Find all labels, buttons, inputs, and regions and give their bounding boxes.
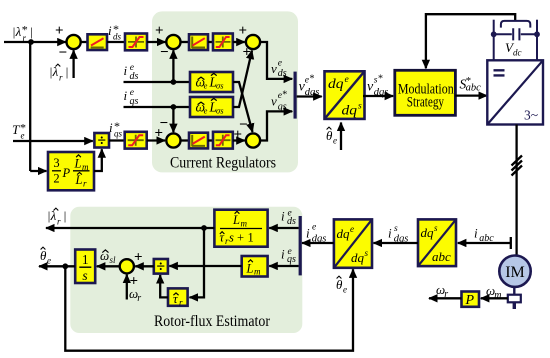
- svg-text:qs: qs: [287, 254, 296, 265]
- svg-text:sl: sl: [110, 255, 117, 265]
- flux filter block Lm/(tr s+1): [214, 210, 267, 247]
- svg-text:dq: dq: [421, 225, 435, 240]
- svg-text:L: L: [232, 213, 240, 227]
- encoder block: [508, 287, 521, 310]
- Lm gain block: [242, 256, 268, 277]
- svg-text:|λ: |λ: [49, 64, 59, 79]
- svg-text:−: −: [160, 45, 169, 61]
- svg-text:i: i: [474, 226, 478, 241]
- summing junction S5: [246, 133, 260, 147]
- svg-text:−: −: [59, 45, 68, 61]
- wire SAT2 to S3: [233, 41, 245, 43]
- node omega_r label (output): [436, 282, 448, 300]
- PI controller block P2: [189, 34, 208, 50]
- svg-text:dqs: dqs: [374, 87, 389, 98]
- svg-text:2: 2: [53, 172, 59, 186]
- wire flux output lambda_hat: [46, 225, 214, 231]
- svg-text:m: m: [494, 290, 501, 301]
- wire dc-link left rail: [493, 20, 495, 61]
- node V_dc label: [505, 40, 522, 58]
- svg-text:dq: dq: [328, 76, 344, 91]
- wire S6 to integrator: [97, 265, 120, 267]
- svg-text:1: 1: [82, 252, 89, 267]
- svg-text:*: *: [310, 74, 315, 85]
- wire S2 to PI2: [180, 41, 189, 43]
- node i_dqs^e label: [306, 223, 326, 245]
- mux bar voltages: [294, 72, 297, 119]
- svg-text:+: +: [134, 250, 143, 266]
- summing junction S1: [67, 35, 81, 49]
- node i_ds* label: [108, 22, 122, 42]
- svg-text:ds: ds: [130, 71, 139, 82]
- coupling block wL2: [190, 97, 233, 117]
- divide block DIV1: [94, 133, 109, 150]
- wire inverter output to motor: [515, 125, 517, 256]
- svg-text:θ: θ: [326, 128, 333, 143]
- svg-text:v: v: [271, 94, 277, 109]
- node S_abc* label: [460, 75, 482, 94]
- node T_e* label: [12, 121, 26, 141]
- svg-text:i: i: [281, 209, 285, 224]
- svg-text:3: 3: [53, 156, 59, 170]
- wire i_abc to ABC block: [458, 242, 511, 244]
- svg-text:L: L: [75, 173, 83, 187]
- wire tau_r to DIV2: [160, 275, 168, 297]
- svg-text:+: +: [155, 23, 164, 39]
- svg-text:÷: ÷: [157, 259, 166, 276]
- wire modulation to inverter: [455, 94, 487, 96]
- svg-text:e: e: [21, 131, 25, 141]
- wire i_qs^e to Lm block: [269, 265, 298, 267]
- svg-text:r: r: [137, 293, 141, 304]
- svg-text:abc: abc: [479, 233, 494, 244]
- svg-text:s: s: [434, 223, 438, 233]
- svg-text:+: +: [237, 231, 244, 245]
- wire Lm to DIV2: [169, 265, 241, 267]
- wire theta_e stub to DQ1: [340, 123, 342, 151]
- junction dot right rail: [534, 31, 540, 37]
- rotor-flux estimator background region: [70, 207, 302, 333]
- wire lambda_hat feedback stub: [72, 50, 74, 78]
- wire theta_e feedback bottom: [65, 266, 353, 350]
- node i_ds^e label: [124, 63, 139, 82]
- svg-text:r: r: [83, 179, 87, 189]
- svg-text:e: e: [204, 106, 208, 116]
- capacitor C plates: [513, 28, 519, 40]
- svg-text:−: −: [160, 116, 169, 132]
- wire lambda_r* branch down: [29, 42, 31, 171]
- PI controller block P3: [189, 133, 208, 149]
- wire T_e* input: [13, 140, 93, 142]
- Vdc measurement bracket: [501, 21, 530, 28]
- svg-text:abc: abc: [432, 249, 451, 264]
- summing junction S4: [166, 133, 180, 147]
- node omega_r label (estimator): [129, 286, 141, 304]
- svg-text:1: 1: [248, 231, 254, 245]
- svg-text:dqs: dqs: [394, 233, 409, 244]
- svg-text:+: +: [55, 23, 64, 39]
- wire T branch to torque block: [30, 170, 46, 172]
- wire S3 output v_ds to mux: [260, 42, 292, 79]
- svg-text:σs: σs: [216, 81, 224, 91]
- svg-text:dq: dq: [351, 250, 365, 265]
- transform block DQ2 (dq_e / dq_s): [334, 219, 372, 267]
- svg-text:i: i: [306, 226, 310, 241]
- wire torque block to DIV1: [94, 149, 102, 171]
- svg-text:*: *: [378, 74, 383, 85]
- wire DQ2 to demux: [302, 242, 334, 244]
- node v_dqs^e* label: [299, 74, 320, 98]
- saturation block SATq: [125, 132, 147, 149]
- svg-text:i: i: [108, 23, 112, 38]
- tau_r block: [168, 288, 188, 307]
- node i_qs* label: [109, 119, 123, 139]
- svg-text:e: e: [204, 81, 208, 91]
- svg-text:P: P: [62, 166, 71, 180]
- svg-text:P: P: [465, 293, 475, 308]
- coupling block wL1: [190, 72, 233, 92]
- wire i_ds^e stub into regulators: [124, 79, 192, 85]
- node i_abc label: [474, 226, 494, 245]
- svg-text:s: s: [358, 102, 362, 112]
- svg-text:e: e: [305, 76, 309, 86]
- saturation block SAT1: [125, 34, 147, 51]
- svg-text:dq: dq: [337, 226, 351, 241]
- svg-text:m: m: [241, 219, 248, 229]
- saturation block SAT3: [213, 132, 233, 149]
- node theta_e label (DQ2): [336, 276, 347, 294]
- wire DQ3 to DQ2: [374, 242, 419, 244]
- wire SAT3 to S5: [233, 139, 245, 141]
- node lambda_hat out label: [47, 208, 67, 227]
- pole-pairs block P: [462, 292, 480, 308]
- demux bar currents: [299, 216, 302, 275]
- svg-text:IM: IM: [505, 264, 525, 281]
- wire wL1 cross-coupling to S5: [233, 82, 253, 132]
- saturation block SAT2: [213, 34, 233, 51]
- svg-text:ds: ds: [287, 216, 296, 227]
- wire dc-link right rail: [536, 20, 538, 61]
- svg-text:|: |: [30, 24, 34, 39]
- wire i_ds^e to flux block: [269, 227, 298, 229]
- node v_qs^e* label: [271, 90, 287, 113]
- wire theta_e output: [39, 263, 75, 269]
- svg-text:|: |: [63, 208, 67, 223]
- svg-text:dq: dq: [342, 103, 358, 118]
- svg-text:ds: ds: [278, 68, 287, 79]
- svg-text:i: i: [281, 247, 285, 262]
- current regulators background region: [152, 11, 298, 172]
- svg-text:dqs: dqs: [312, 233, 327, 244]
- wire flux branch down to tau_r: [190, 228, 205, 297]
- node omega_sl label: [100, 248, 116, 265]
- node lambda* label: [12, 23, 33, 44]
- svg-text:θ: θ: [336, 277, 343, 292]
- torque gain block 3/2 P Lm/Lr: [48, 152, 94, 190]
- svg-text:T: T: [12, 122, 20, 137]
- wire i_qs^e stub into regulators: [124, 104, 192, 110]
- svg-text:|λ: |λ: [47, 208, 57, 223]
- node omega_m label: [486, 283, 502, 301]
- svg-text:*: *: [282, 90, 287, 101]
- svg-text:L: L: [246, 262, 254, 276]
- svg-text:+: +: [239, 23, 248, 39]
- svg-text:3~: 3~: [524, 108, 538, 123]
- node i_qs^e label: [124, 88, 139, 107]
- wire i_qs junction down to S4: [172, 107, 174, 132]
- svg-text:i: i: [124, 88, 128, 103]
- current sensor tick: [510, 237, 512, 249]
- svg-text:i: i: [124, 63, 128, 78]
- wire PI1 to SAT1: [107, 41, 125, 43]
- svg-text:÷: ÷: [97, 133, 106, 150]
- wire lambda_r* input: [4, 39, 66, 45]
- svg-text:r: r: [59, 73, 63, 83]
- svg-text:r: r: [23, 33, 27, 43]
- svg-text:|λ: |λ: [12, 24, 22, 39]
- wire S5 output v_qs to mux: [260, 111, 292, 140]
- svg-text:θ: θ: [40, 248, 47, 263]
- inverter block: [487, 60, 543, 124]
- svg-text:i: i: [109, 120, 113, 135]
- wire wL2 cross-coupling to S3: [233, 51, 252, 108]
- wire PI2 to SAT2: [208, 41, 213, 43]
- svg-text:Rotor-flux Estimator: Rotor-flux Estimator: [154, 313, 271, 330]
- svg-text:Current Regulators: Current Regulators: [170, 155, 276, 172]
- wire S4 to PIq: [180, 139, 189, 141]
- PI controller block P1: [88, 34, 108, 50]
- node i_qs^e label (estimator): [281, 247, 296, 266]
- svg-text:e: e: [312, 223, 316, 233]
- svg-text:e: e: [350, 224, 354, 234]
- node lambda_hat label: [49, 64, 69, 83]
- wire DQ1 to modulation: [363, 95, 393, 97]
- summing junction S6: [120, 259, 134, 273]
- svg-text:e: e: [333, 136, 337, 146]
- wire SATq to S4: [147, 139, 165, 141]
- node i_ds^e label (estimator): [281, 209, 296, 228]
- divide block DIV2: [154, 259, 168, 276]
- node theta_e label (DQ1): [326, 127, 337, 145]
- induction motor IM: [499, 256, 530, 287]
- svg-text:qs: qs: [114, 129, 123, 139]
- svg-text:r: r: [57, 217, 61, 227]
- wire omega_m to P: [481, 297, 508, 299]
- svg-text:qs: qs: [130, 96, 139, 107]
- svg-text:v: v: [271, 61, 277, 76]
- svg-text:s: s: [229, 231, 234, 245]
- wire DIV1 to SATq: [109, 139, 125, 141]
- capacitor C wires: [494, 33, 537, 35]
- svg-text:ds: ds: [113, 32, 122, 42]
- wire i_ds junction up to S2: [172, 50, 174, 82]
- svg-text:r: r: [444, 289, 448, 300]
- svg-text:e: e: [345, 75, 349, 85]
- transform block DQ1 (dq_e / dq_s): [325, 71, 365, 119]
- transform block DQ3 (dq_s / abc): [418, 219, 456, 266]
- wire omega_r output: [429, 297, 462, 299]
- svg-text:e: e: [278, 58, 282, 68]
- svg-text:dc: dc: [513, 48, 522, 58]
- svg-text:dqs: dqs: [305, 87, 320, 98]
- modulation strategy block: [395, 70, 456, 115]
- wire S1 to PI1: [80, 41, 87, 43]
- three-phase slash marks: [512, 156, 523, 176]
- svg-text:σs: σs: [216, 106, 224, 116]
- wire omega_r stub to S6: [126, 275, 128, 300]
- svg-text:abc: abc: [466, 83, 482, 94]
- node v_ds^e label: [271, 58, 287, 79]
- node i_dqs^s label: [388, 224, 408, 244]
- node v_dqs^s* label: [367, 74, 388, 98]
- integrator block 1/s: [75, 250, 95, 284]
- svg-text:s: s: [82, 268, 87, 283]
- wire PIq to SAT3: [208, 139, 213, 141]
- svg-text:i: i: [388, 226, 392, 241]
- svg-text:|: |: [65, 64, 69, 79]
- node theta_e out label: [40, 247, 51, 265]
- svg-text:qs: qs: [278, 102, 287, 113]
- svg-text:+: +: [234, 127, 243, 143]
- Vdc feedback wire to modulation: [426, 14, 515, 68]
- svg-text:e: e: [47, 256, 51, 266]
- svg-text:r: r: [179, 298, 183, 308]
- wire SAT1 to S2: [147, 41, 166, 43]
- svg-text:e: e: [343, 285, 347, 295]
- svg-text:m: m: [254, 267, 261, 277]
- wire v_dqs^e* to DQ1: [297, 95, 322, 97]
- junction dot left rail: [491, 31, 497, 37]
- summing junction S3: [246, 35, 260, 49]
- svg-text:Strategy: Strategy: [407, 95, 445, 111]
- svg-text:s: s: [365, 248, 369, 258]
- summing junction S2: [166, 35, 180, 49]
- svg-text:L: L: [74, 157, 82, 171]
- wire DIV2 to S6: [135, 265, 154, 267]
